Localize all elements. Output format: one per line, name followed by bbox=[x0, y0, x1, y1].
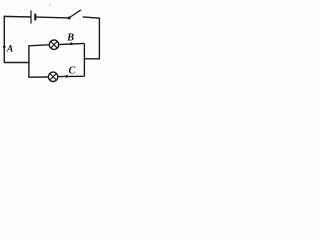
svg-text:A: A bbox=[6, 43, 13, 54]
svg-text:C: C bbox=[69, 66, 76, 77]
svg-text:B: B bbox=[66, 32, 74, 43]
